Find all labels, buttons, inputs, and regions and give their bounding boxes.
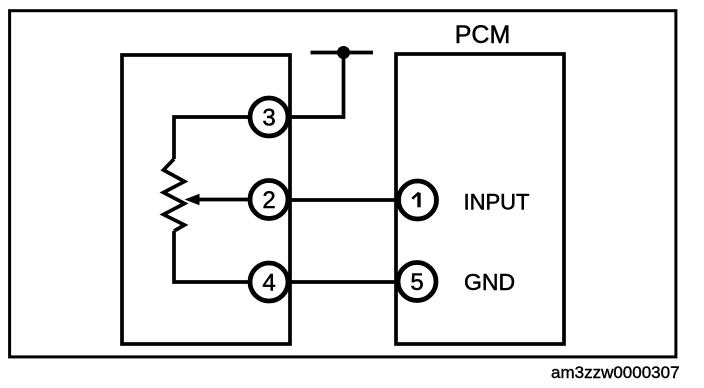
- wire: pot bottom to pin 4: [174, 231, 248, 282]
- wire: wiper to pin 2: [197, 198, 250, 202]
- PCM module box: [396, 54, 564, 344]
- potentiometer resistive element: [164, 159, 185, 231]
- GND label: [464, 269, 515, 295]
- svg-text:am3zzw0000307: am3zzw0000307: [551, 363, 680, 382]
- pin 5: [398, 263, 436, 301]
- svg-text:PCM: PCM: [455, 21, 511, 49]
- sensor box: [122, 55, 290, 344]
- wire: pin 3 to supply junction: [290, 53, 344, 118]
- wiper arrow: [185, 194, 200, 205]
- pin 3: [250, 98, 288, 136]
- svg-text:2: 2: [262, 187, 275, 214]
- figure id am3zzw0000307: [551, 363, 680, 382]
- INPUT label: [464, 189, 530, 214]
- junction dot: [337, 46, 350, 59]
- wire: pin 2 to pin 1: [290, 198, 396, 202]
- wire: pot top to pin 3: [174, 117, 248, 159]
- svg-text:5: 5: [410, 269, 423, 296]
- pin 2: [250, 181, 288, 219]
- supply rail: [311, 51, 374, 55]
- PCM label: [455, 21, 511, 49]
- svg-text:4: 4: [262, 270, 275, 297]
- pin 4: [250, 263, 288, 301]
- wire: pin 4 to pin 5: [290, 280, 396, 284]
- svg-text:3: 3: [262, 105, 275, 132]
- svg-text:GND: GND: [464, 269, 515, 295]
- pin 1: [399, 181, 437, 219]
- svg-text:INPUT: INPUT: [464, 189, 530, 214]
